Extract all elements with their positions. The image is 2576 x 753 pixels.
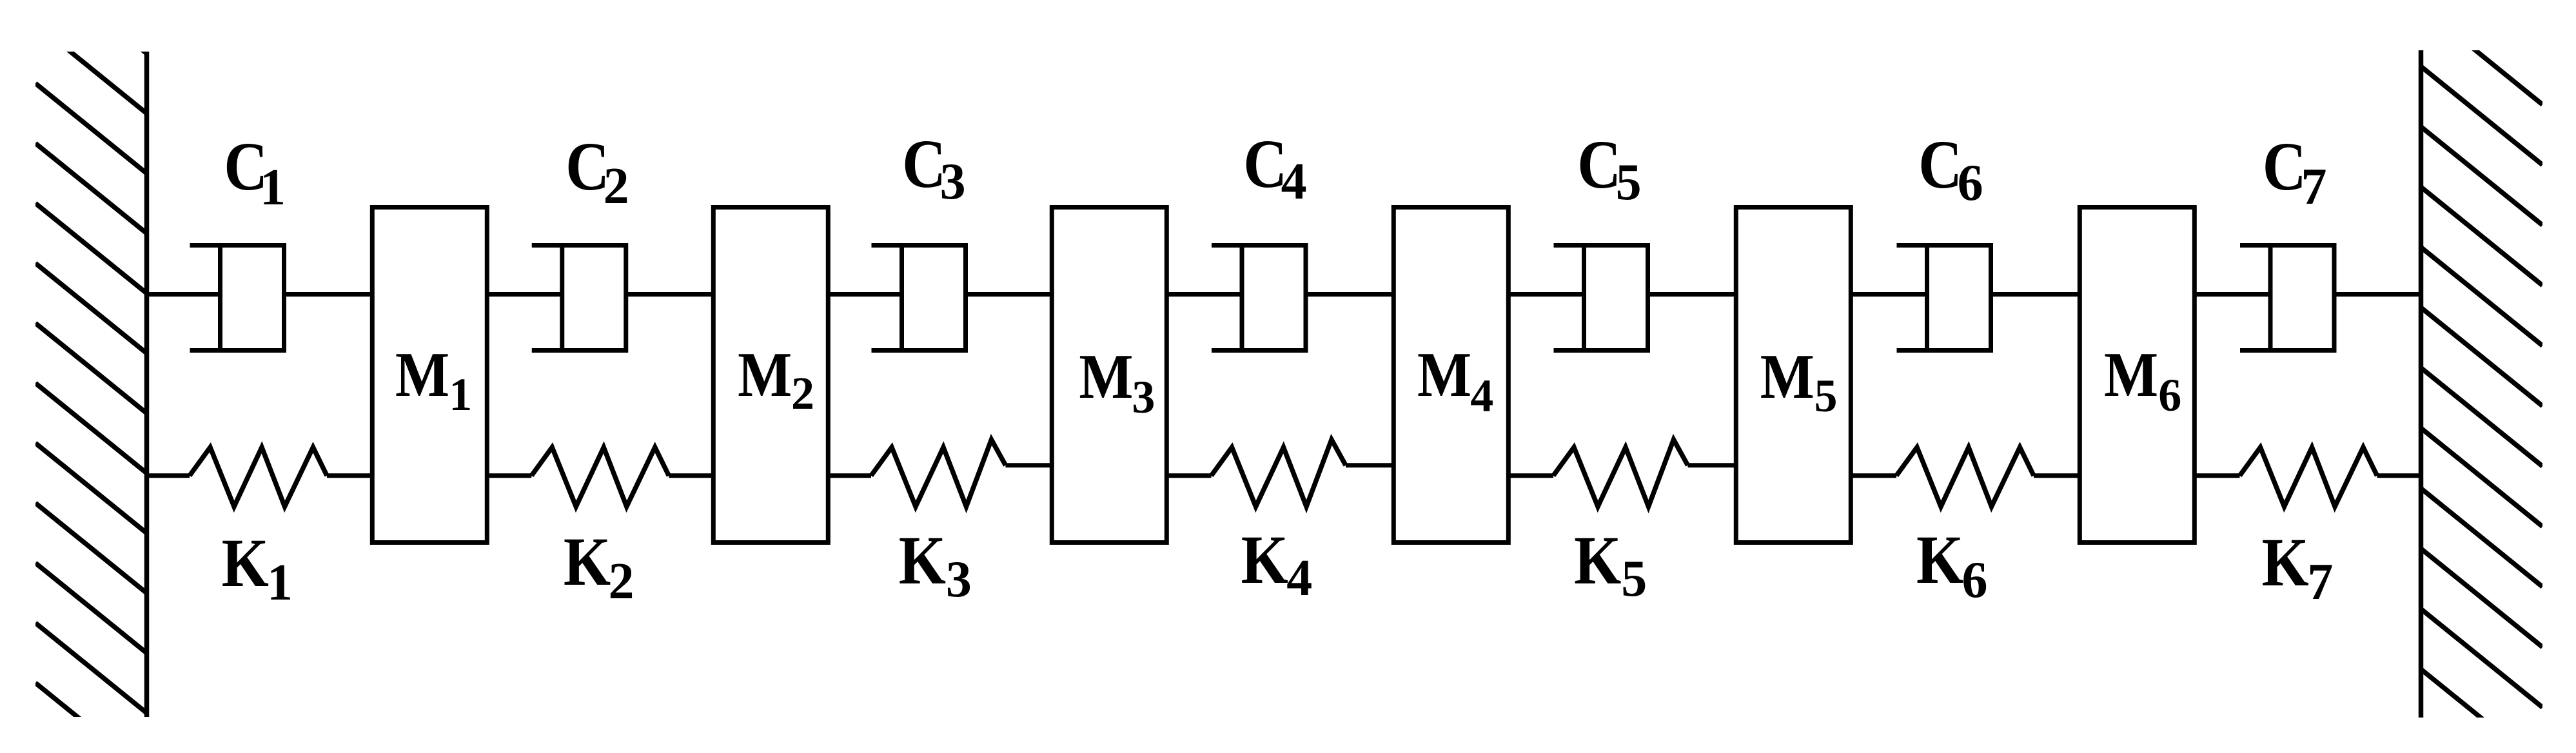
wire: left lead of spring K4	[1166, 473, 1211, 478]
left wall	[144, 52, 150, 717]
damper C6 piston plate	[1925, 246, 1929, 351]
svg-text:K: K	[1241, 521, 1288, 598]
spring K6	[1851, 447, 2079, 507]
wire: left rod of damper C5	[1508, 292, 1584, 297]
right wall hatching	[2421, 6, 2543, 753]
label K5	[1574, 522, 1647, 607]
label K4	[1241, 521, 1313, 607]
label K6	[1916, 521, 1988, 609]
label C5	[1577, 126, 1642, 211]
spring K1 zig-zag coil	[190, 447, 327, 507]
wire: right lead of spring K6	[2034, 473, 2079, 478]
spring K7 zig-zag coil	[2240, 447, 2377, 507]
damper C4 cylinder end wall	[1304, 246, 1308, 351]
svg-text:7: 7	[2301, 159, 2327, 215]
svg-text:K: K	[2262, 523, 2309, 600]
spring K7	[2194, 447, 2421, 507]
label C3	[902, 125, 966, 210]
damper C2 cylinder bottom line	[532, 348, 626, 353]
wire: right rod of damper C2	[626, 292, 714, 297]
label C2	[565, 128, 629, 215]
svg-text:3: 3	[946, 551, 972, 608]
label K7	[2262, 523, 2334, 611]
damper C1 piston plate	[218, 246, 222, 351]
wire: right lead of spring K3	[1006, 463, 1052, 467]
damper C3 piston plate	[900, 246, 904, 351]
label M3	[1079, 342, 1155, 423]
svg-text:7: 7	[2307, 554, 2333, 611]
wire: right rod of damper C6	[1991, 292, 2080, 297]
damper C7 piston plate	[2268, 246, 2273, 351]
spring K5	[1508, 440, 1736, 507]
svg-text:6: 6	[1962, 552, 1988, 609]
svg-text:5: 5	[1621, 551, 1647, 607]
svg-text:3: 3	[940, 153, 966, 210]
svg-text:2: 2	[604, 158, 629, 215]
wire: left rod of damper C6	[1851, 292, 1927, 297]
svg-text:M: M	[395, 340, 449, 410]
svg-text:5: 5	[1814, 370, 1838, 422]
damper C2 cylinder top line	[532, 243, 626, 248]
spring K4 zig-zag coil	[1212, 440, 1346, 507]
wire: left rod of damper C3	[828, 292, 901, 297]
wire: right lead of spring K7	[2377, 473, 2421, 478]
svg-text:5: 5	[1616, 154, 1642, 211]
wire: right rod of damper C7	[2334, 292, 2421, 297]
svg-text:M: M	[1760, 342, 1814, 412]
spring K1	[147, 447, 373, 507]
wire: right lead of spring K2	[669, 473, 713, 478]
damper C5 cylinder bottom line	[1554, 348, 1648, 353]
wire: left lead of spring K1	[147, 473, 190, 478]
wire: right rod of damper C5	[1648, 292, 1736, 297]
svg-text:M: M	[1079, 342, 1133, 412]
spring K4	[1166, 440, 1393, 507]
wire: left rod of damper C2	[487, 292, 562, 297]
label C6	[1918, 126, 1983, 211]
label C7	[2263, 128, 2327, 215]
svg-text:M: M	[738, 340, 792, 410]
left wall hatching	[35, 0, 147, 753]
damper C7 cylinder bottom line	[2240, 348, 2334, 353]
spring K2 zig-zag coil	[531, 447, 669, 507]
wire: right lead of spring K5	[1688, 463, 1736, 467]
label M4	[1417, 340, 1493, 422]
spring K5 zig-zag coil	[1553, 440, 1688, 507]
damper C7 cylinder top line	[2240, 243, 2334, 248]
damper C2	[487, 246, 713, 351]
spring K3 zig-zag coil	[871, 440, 1006, 507]
wire: left rod of damper C4	[1166, 292, 1242, 297]
label C1	[224, 128, 286, 216]
damper C3	[828, 246, 1052, 351]
svg-text:4: 4	[1281, 153, 1307, 210]
svg-text:C: C	[1577, 126, 1621, 202]
wire: right rod of damper C3	[966, 292, 1052, 297]
damper C4 piston plate	[1240, 246, 1244, 351]
svg-text:4: 4	[1470, 370, 1493, 422]
damper C2 cylinder end wall	[624, 246, 628, 351]
damper C4	[1166, 246, 1393, 351]
svg-text:6: 6	[1958, 155, 1983, 211]
mass M1	[372, 208, 487, 543]
svg-text:3: 3	[1132, 371, 1155, 423]
damper C6 cylinder bottom line	[1897, 348, 1991, 353]
svg-text:C: C	[2263, 128, 2306, 204]
label K1	[222, 524, 293, 611]
svg-text:1: 1	[449, 369, 472, 420]
damper C7	[2194, 246, 2421, 351]
label C4	[1243, 125, 1306, 210]
damper C1 cylinder bottom line	[190, 348, 284, 353]
damper C3 cylinder top line	[872, 243, 966, 248]
wire: left lead of spring K7	[2194, 473, 2239, 478]
svg-text:6: 6	[2158, 369, 2181, 421]
damper C1 cylinder top line	[190, 243, 284, 248]
damper C4 cylinder bottom line	[1212, 348, 1306, 353]
svg-text:2: 2	[608, 553, 634, 610]
label K2	[564, 523, 634, 610]
damper C7 cylinder end wall	[2332, 246, 2337, 351]
svg-text:K: K	[222, 524, 269, 601]
wire: right lead of spring K4	[1346, 463, 1393, 467]
label M5	[1760, 342, 1838, 422]
spring K6 zig-zag coil	[1896, 447, 2034, 507]
damper C6	[1851, 246, 2079, 351]
wire: right lead of spring K1	[327, 473, 372, 478]
damper C2 piston plate	[560, 246, 564, 351]
mass M6	[2079, 208, 2194, 543]
svg-text:K: K	[899, 522, 946, 598]
damper C5 piston plate	[1582, 246, 1586, 351]
damper C5	[1508, 246, 1736, 351]
label M1	[395, 340, 472, 420]
damper C6 cylinder end wall	[1989, 246, 1993, 351]
wire: left rod of damper C7	[2194, 292, 2270, 297]
svg-text:2: 2	[791, 367, 814, 419]
svg-text:M: M	[2104, 340, 2158, 410]
damper C1	[147, 246, 373, 351]
damper C6 cylinder top line	[1897, 243, 1991, 248]
svg-text:1: 1	[267, 554, 293, 611]
wire: left lead of spring K3	[828, 473, 871, 478]
wire: left lead of spring K5	[1508, 473, 1553, 478]
svg-text:M: M	[1417, 340, 1471, 410]
wire: left rod of damper C1	[147, 292, 221, 297]
damper C1 cylinder end wall	[282, 246, 286, 351]
damper C3 cylinder bottom line	[872, 348, 966, 353]
wire: right rod of damper C4	[1306, 292, 1393, 297]
mass M5	[1736, 208, 1851, 543]
label K3	[899, 522, 972, 608]
mass M3	[1052, 208, 1166, 543]
svg-text:K: K	[1916, 521, 1963, 598]
spring K3	[828, 440, 1052, 507]
damper C4 cylinder top line	[1212, 243, 1306, 248]
spring K2	[487, 447, 713, 507]
svg-text:K: K	[1574, 522, 1621, 598]
damper C5 cylinder top line	[1554, 243, 1648, 248]
svg-text:C: C	[1918, 126, 1962, 202]
right wall	[2419, 50, 2424, 718]
svg-text:1: 1	[260, 159, 286, 216]
wire: left lead of spring K6	[1851, 473, 1896, 478]
label M2	[738, 340, 814, 419]
svg-text:K: K	[564, 523, 611, 600]
wire: right rod of damper C1	[284, 292, 373, 297]
label M6	[2104, 340, 2181, 421]
mass M2	[713, 208, 828, 543]
damper C5 cylinder end wall	[1646, 246, 1650, 351]
wire: left lead of spring K2	[487, 473, 531, 478]
damper C3 cylinder end wall	[963, 246, 968, 351]
mass M4	[1393, 208, 1508, 543]
svg-text:4: 4	[1286, 550, 1312, 607]
